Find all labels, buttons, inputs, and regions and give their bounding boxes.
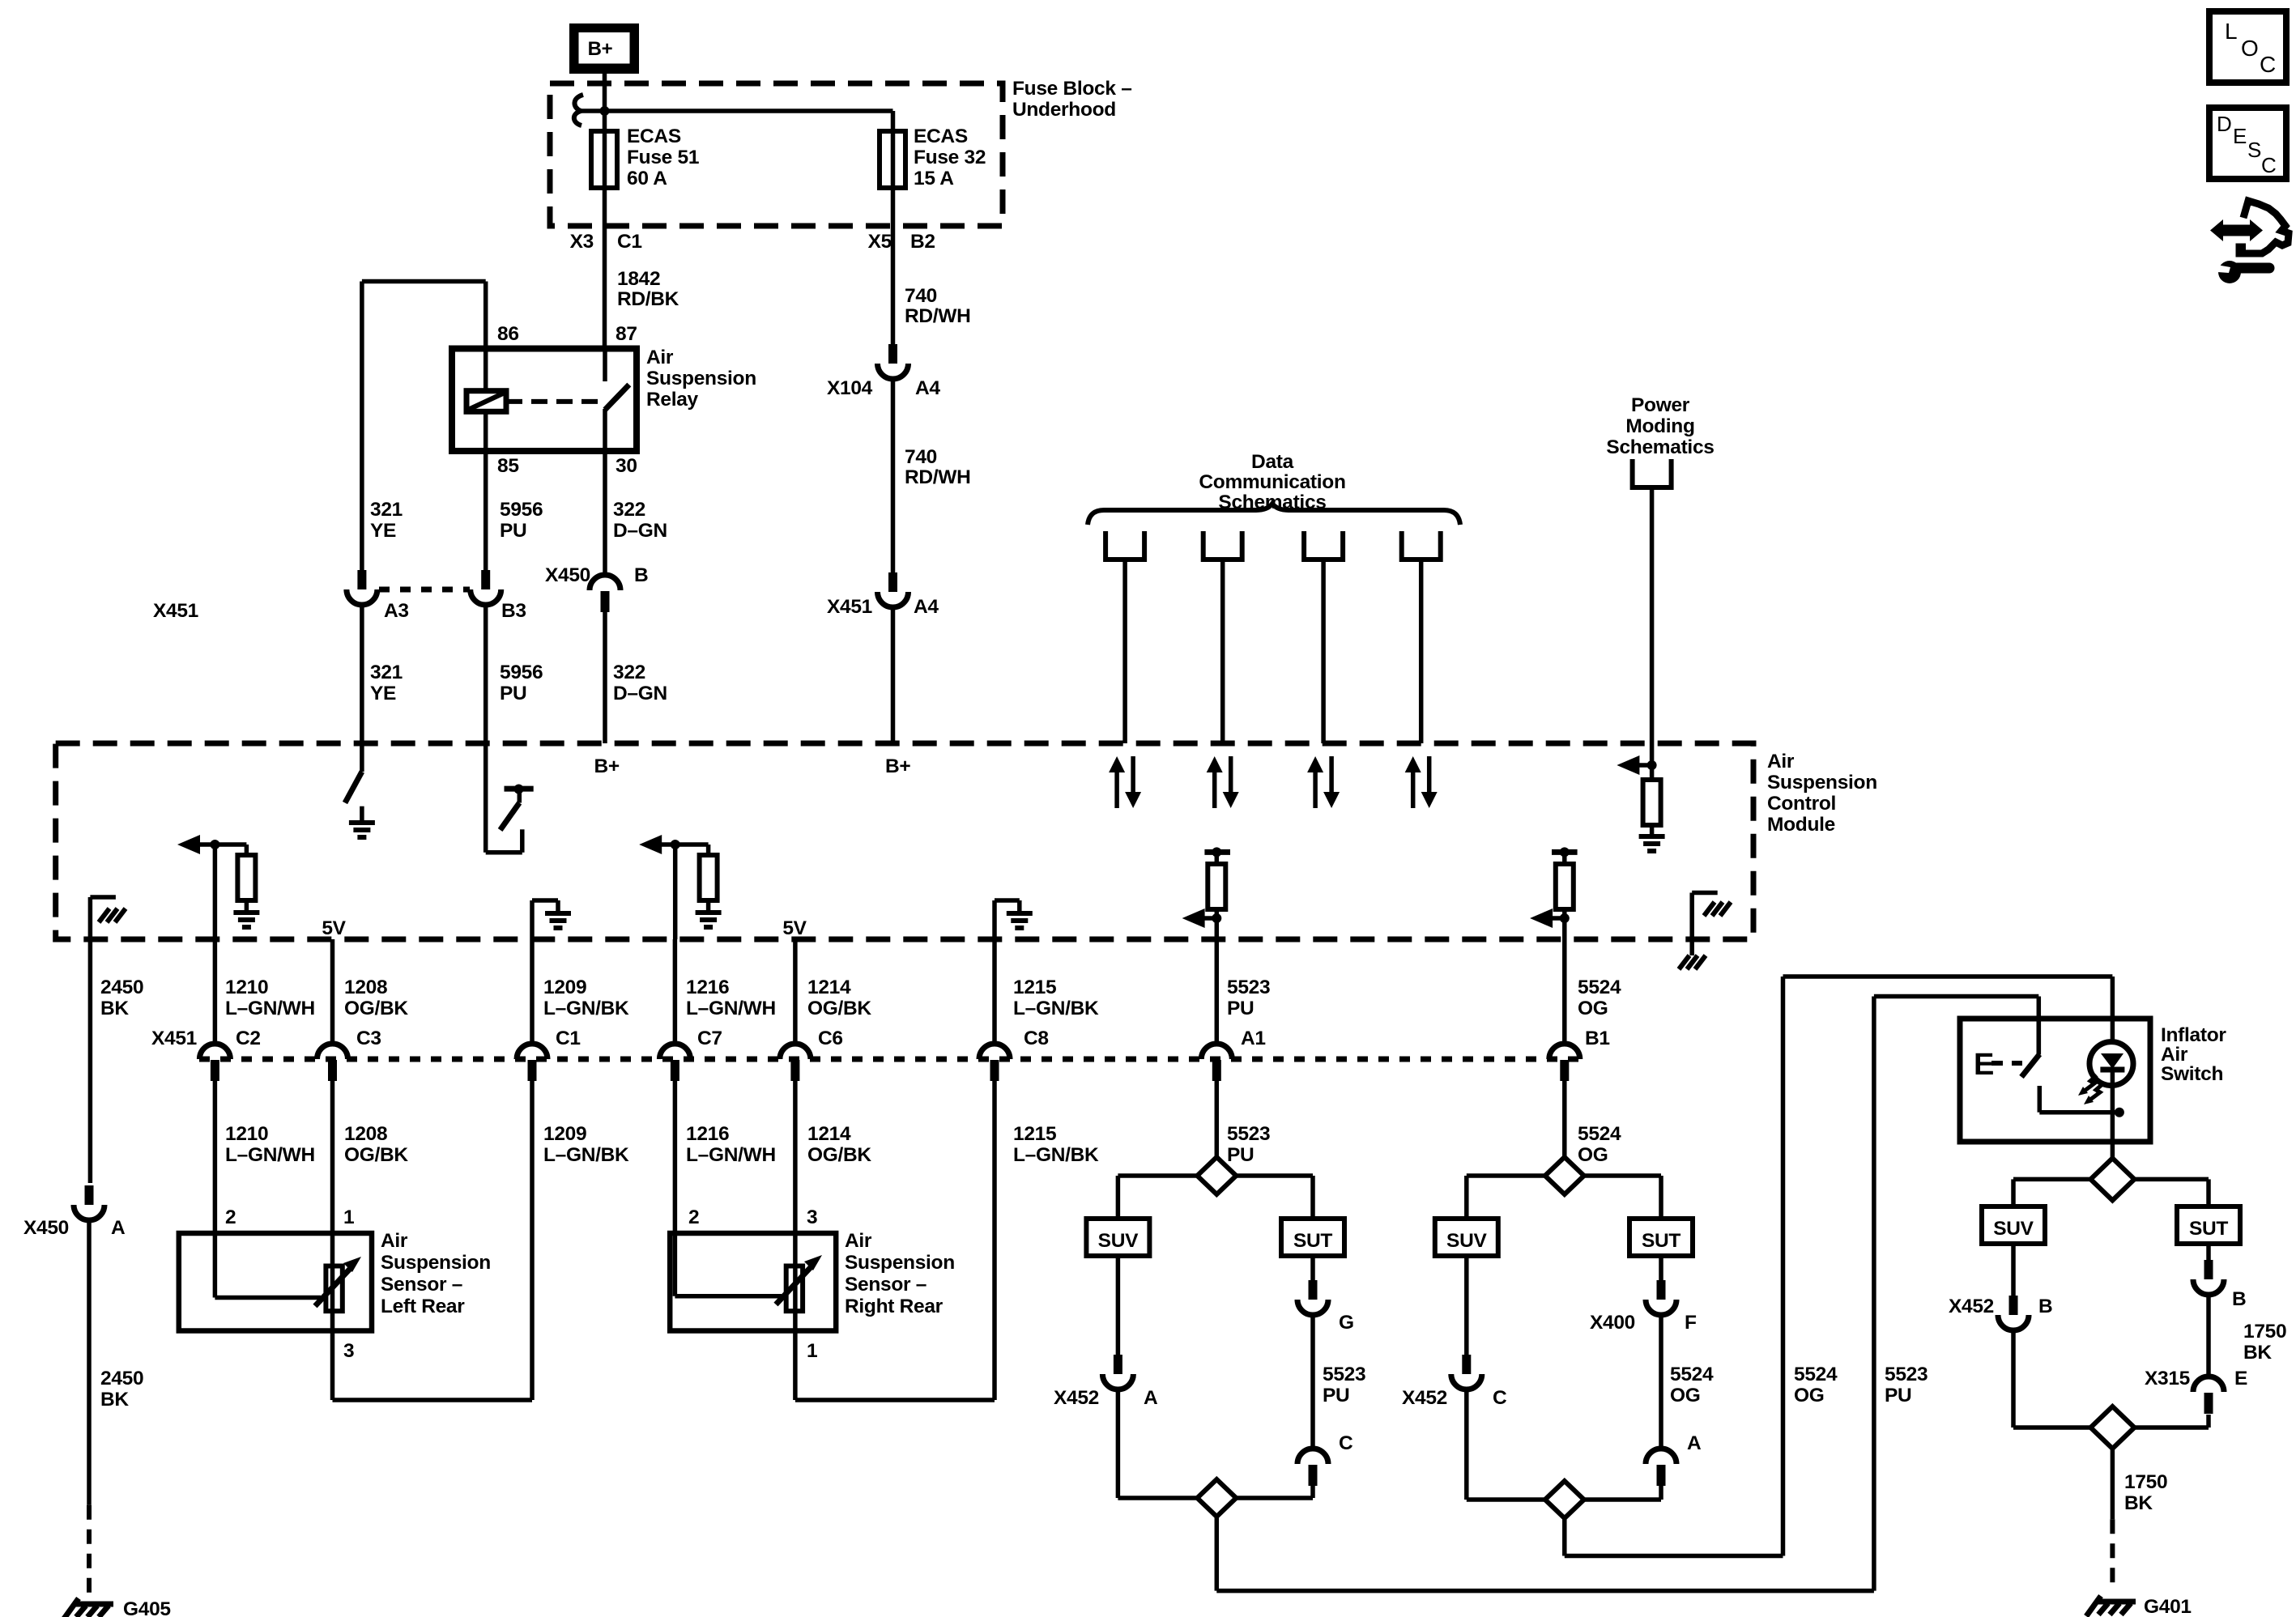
arrow pair serial data 2: [1207, 756, 1223, 772]
svg-text:Communication: Communication: [1199, 471, 1345, 493]
svg-text:X104: X104: [827, 377, 873, 399]
svg-text:G405: G405: [123, 1598, 171, 1617]
connector X452 C: [1451, 1355, 1482, 1389]
svg-text:Switch: Switch: [2161, 1063, 2223, 1085]
icon box DESC: [2209, 108, 2286, 179]
box SUT inflator: [2177, 1206, 2240, 1244]
svg-text:A: A: [111, 1217, 126, 1239]
svg-text:L: L: [2225, 19, 2237, 44]
ground G405: [64, 1598, 113, 1617]
arrow 5524 sense: [1530, 908, 1553, 928]
connector X400 F: [1646, 1280, 1676, 1315]
svg-text:BK: BK: [100, 1389, 129, 1411]
connector X451 C8: [979, 1044, 1010, 1081]
svg-text:BK: BK: [2124, 1492, 2153, 1514]
wire A to bottom: [1659, 1486, 1663, 1500]
svg-text:2: 2: [225, 1206, 236, 1228]
module switch 321 YE to ground: [360, 745, 364, 772]
off-page connector data wire 2: [1203, 531, 1242, 560]
svg-text:5524: 5524: [1670, 1364, 1714, 1385]
svg-text:Underhood: Underhood: [1012, 99, 1116, 121]
svg-text:SUV: SUV: [1446, 1230, 1487, 1252]
svg-text:X452: X452: [1949, 1296, 1994, 1317]
svg-text:C1: C1: [617, 231, 642, 253]
svg-text:321: 321: [370, 662, 403, 683]
box SUV left loop: [1086, 1219, 1149, 1256]
wire 321 YE to module: [360, 605, 364, 745]
switch E dashed link: [1991, 1061, 2022, 1066]
svg-text:B: B: [2038, 1296, 2052, 1317]
connector X451 C6: [780, 1044, 811, 1081]
wire X452 B to bottom: [2011, 1330, 2016, 1428]
wire 1214 through pot: [793, 1266, 798, 1312]
svg-text:A4: A4: [914, 596, 939, 618]
svg-text:B3: B3: [501, 600, 526, 622]
svg-text:G401: G401: [2144, 1596, 2192, 1617]
svg-text:C: C: [2261, 153, 2276, 177]
svg-text:OG/BK: OG/BK: [807, 998, 871, 1019]
svg-text:OG/BK: OG/BK: [344, 998, 408, 1019]
svg-text:SUV: SUV: [1098, 1230, 1139, 1252]
arrow pair serial data 1: [1109, 756, 1125, 772]
wire to SUT left loop: [1310, 1176, 1315, 1219]
svg-text:G: G: [1339, 1312, 1354, 1334]
svg-text:1210: 1210: [225, 977, 268, 998]
wire into connector row x833: [673, 939, 678, 1045]
arrow 1210 sense: [177, 835, 200, 854]
svg-text:RD/WH: RD/WH: [905, 305, 971, 327]
svg-text:BK: BK: [2243, 1342, 2272, 1364]
svg-text:RD/WH: RD/WH: [905, 466, 971, 488]
svg-text:L–GN/WH: L–GN/WH: [686, 998, 776, 1019]
svg-text:C6: C6: [818, 1028, 843, 1049]
relay coil: [466, 391, 506, 412]
fuse F51 ECAS Fuse 51 60 A: [591, 131, 617, 188]
svg-text:1208: 1208: [344, 977, 387, 998]
connector G left loop: [1297, 1280, 1328, 1315]
box SUV inflator: [1982, 1206, 2045, 1244]
svg-text:X3: X3: [570, 231, 594, 253]
svg-text:OG: OG: [1578, 998, 1608, 1019]
connector X451 C2: [199, 1044, 230, 1081]
switch contact inflator: [2038, 1086, 2043, 1113]
connector X451 A3: [347, 570, 377, 605]
svg-text:D: D: [2217, 112, 2231, 136]
svg-text:5524: 5524: [1794, 1364, 1838, 1385]
junction 1210: [210, 840, 219, 849]
wire SUT right to X400 F: [1659, 1256, 1663, 1280]
wire fuse 32 output: [891, 188, 896, 344]
wire into connector row x1228: [992, 939, 997, 1045]
svg-text:5956: 5956: [500, 662, 543, 683]
svg-text:740: 740: [905, 446, 937, 468]
svg-text:PU: PU: [500, 520, 526, 542]
svg-text:85: 85: [497, 455, 519, 477]
svg-text:1750: 1750: [2124, 1471, 2167, 1493]
wire SUV left to X452 A: [1116, 1256, 1121, 1355]
connector X451 A4: [878, 572, 909, 607]
connector X451 C1: [517, 1044, 547, 1081]
connector X315 E: [2193, 1377, 2224, 1414]
svg-text:B+: B+: [588, 38, 613, 60]
svg-text:Sensor –: Sensor –: [845, 1274, 926, 1296]
svg-text:PU: PU: [1885, 1385, 1911, 1406]
svg-text:X450: X450: [23, 1217, 69, 1239]
resistor 1216 pull: [675, 842, 709, 847]
svg-text:A1: A1: [1241, 1028, 1266, 1049]
connector A right loop: [1646, 1449, 1676, 1486]
wire sensor return to C8: [795, 1398, 995, 1402]
junction LED cathode: [2115, 1108, 2124, 1117]
svg-text:1750: 1750: [2243, 1321, 2286, 1343]
svg-text:YE: YE: [370, 520, 396, 542]
ground symbol 1216: [696, 913, 722, 927]
off-page connector data wire 1: [1105, 531, 1144, 560]
wire to SUT right loop: [1659, 1176, 1663, 1219]
wire to SUV inflator: [2011, 1179, 2016, 1206]
svg-text:X400: X400: [1590, 1312, 1635, 1334]
module ground hook right: [1689, 893, 1694, 940]
wire 1210 to sensor: [213, 1081, 218, 1233]
svg-text:SUT: SUT: [1293, 1230, 1332, 1252]
svg-text:C1: C1: [556, 1028, 581, 1049]
connector B inflator: [2193, 1260, 2224, 1295]
svg-text:86: 86: [497, 323, 519, 345]
ground symbol 1215: [1007, 913, 1033, 928]
wire power moding feed: [1650, 487, 1655, 765]
svg-text:1214: 1214: [807, 977, 851, 998]
wire F to A: [1659, 1315, 1663, 1449]
LED indicator: [2089, 1042, 2133, 1086]
connector X451 C3: [317, 1044, 348, 1081]
svg-text:Data: Data: [1251, 451, 1294, 473]
connector X104 A4: [878, 344, 909, 379]
ground symbol internal 321: [349, 823, 375, 837]
svg-text:OG/BK: OG/BK: [807, 1144, 871, 1166]
connector X450 B: [590, 575, 620, 612]
wire to SUV left loop: [1116, 1176, 1121, 1219]
wire fuse 51 output: [603, 188, 607, 349]
connector X451 C7: [659, 1044, 690, 1081]
svg-text:YE: YE: [370, 683, 396, 704]
wire 2450 BK down: [88, 939, 93, 1183]
svg-text:C: C: [1493, 1387, 1507, 1409]
svg-text:O: O: [2241, 36, 2258, 61]
wire 5523 to diamond: [1215, 1081, 1220, 1157]
wire 740 RD/WH to module: [891, 607, 896, 743]
svg-text:5523: 5523: [1885, 1364, 1928, 1385]
svg-text:3: 3: [807, 1206, 817, 1228]
svg-text:OG: OG: [1670, 1385, 1701, 1406]
svg-text:L–GN/WH: L–GN/WH: [686, 1144, 776, 1166]
svg-text:1208: 1208: [344, 1123, 387, 1145]
relay switch contact 30-87: [603, 349, 607, 382]
junction 5524: [1560, 913, 1570, 923]
svg-text:Right Rear: Right Rear: [845, 1296, 944, 1317]
splice diamond inflator: [2013, 1177, 2209, 1182]
svg-text:E: E: [2234, 1368, 2247, 1389]
svg-text:5V: 5V: [782, 917, 807, 939]
resistor power moding: [1650, 765, 1655, 780]
ground symbol 1210: [233, 913, 259, 927]
wire 5524 bottom route: [1562, 1518, 1567, 1556]
svg-text:5524: 5524: [1578, 977, 1621, 998]
wire SUV right to X452 C: [1464, 1256, 1469, 1355]
off-page connector data wire 4: [1402, 531, 1441, 560]
connector X452 A: [1102, 1355, 1133, 1389]
svg-text:322: 322: [613, 499, 645, 521]
sensor box Air Suspension Sensor - Left Rear: [179, 1233, 372, 1331]
svg-text:Fuse 51: Fuse 51: [627, 147, 699, 168]
svg-text:Suspension: Suspension: [845, 1252, 955, 1274]
svg-text:SUV: SUV: [1993, 1218, 2034, 1240]
svg-text:1215: 1215: [1013, 1123, 1056, 1145]
svg-text:L–GN/BK: L–GN/BK: [1013, 998, 1099, 1019]
svg-text:Fuse 32: Fuse 32: [914, 147, 986, 168]
svg-text:Air: Air: [646, 347, 674, 368]
wire C to bottom: [1310, 1486, 1315, 1498]
svg-text:Left Rear: Left Rear: [381, 1296, 465, 1317]
wire SUT inflator to B: [2206, 1244, 2211, 1260]
svg-text:30: 30: [616, 455, 637, 477]
wire X452 C to bottom: [1464, 1389, 1469, 1500]
connector X451 B1: [1549, 1044, 1580, 1081]
ground symbol 1209: [545, 913, 571, 928]
svg-text:1: 1: [807, 1340, 817, 1362]
power moding junction: [1647, 760, 1657, 770]
connector X451 B3: [471, 570, 501, 605]
svg-text:X450: X450: [545, 564, 590, 586]
wire 1210 inside module: [213, 845, 218, 939]
fuse F32 ECAS Fuse 32 15 A: [880, 131, 905, 188]
wire into connector row x1931: [1562, 939, 1567, 1045]
wire 5524 top route: [1783, 974, 2113, 979]
battery terminal B+: [569, 23, 639, 74]
svg-text:Schematics: Schematics: [1606, 436, 1714, 458]
svg-text:Air: Air: [845, 1230, 872, 1252]
svg-text:A3: A3: [384, 600, 409, 622]
arrow 5523 sense: [1182, 908, 1205, 928]
svg-text:5V: 5V: [322, 917, 346, 939]
svg-text:5524: 5524: [1578, 1123, 1621, 1145]
svg-text:1210: 1210: [225, 1123, 268, 1145]
wire data link 3: [1321, 560, 1326, 743]
svg-text:Control: Control: [1767, 793, 1836, 815]
connector row dashed line: [199, 1057, 1579, 1062]
splice diamond 5524 bottom: [1467, 1497, 1661, 1502]
svg-text:Air: Air: [2161, 1044, 2188, 1066]
driver 5523 supply bar: [1204, 849, 1230, 855]
svg-text:X451: X451: [151, 1028, 197, 1049]
svg-text:Module: Module: [1767, 814, 1835, 836]
svg-text:5523: 5523: [1227, 1123, 1270, 1145]
svg-text:2: 2: [688, 1206, 699, 1228]
svg-text:1209: 1209: [543, 1123, 586, 1145]
wire 1209 ground hook: [530, 900, 535, 939]
svg-text:C2: C2: [236, 1028, 261, 1049]
svg-text:C3: C3: [356, 1028, 381, 1049]
svg-text:B: B: [2232, 1288, 2246, 1310]
svg-text:X315: X315: [2145, 1368, 2190, 1389]
ground symbol power moding: [1639, 836, 1665, 851]
svg-text:B1: B1: [1585, 1028, 1610, 1049]
sensor box Air Suspension Sensor - Right Rear: [670, 1233, 836, 1331]
splice diamond 5524 top: [1467, 1173, 1661, 1178]
svg-text:D–GN: D–GN: [613, 520, 667, 542]
wire G to C: [1310, 1315, 1315, 1449]
wire data link 2: [1220, 560, 1225, 743]
wire 5524 to diamond: [1562, 1081, 1567, 1157]
svg-text:BK: BK: [100, 998, 129, 1019]
svg-text:5523: 5523: [1323, 1364, 1365, 1385]
connector X452 B: [1998, 1296, 2029, 1330]
svg-text:322: 322: [613, 662, 645, 683]
brace data communication: [1088, 504, 1460, 525]
icon box LOC: [2209, 11, 2286, 83]
svg-text:L–GN/WH: L–GN/WH: [225, 998, 315, 1019]
svg-text:ECAS: ECAS: [914, 126, 968, 147]
svg-text:X452: X452: [1054, 1387, 1099, 1409]
wire into connector row x1502: [1215, 939, 1220, 1045]
svg-text:C8: C8: [1024, 1028, 1049, 1049]
switch box Inflator Air Switch: [1960, 1019, 2150, 1142]
wire X452 A to bottom: [1116, 1389, 1121, 1498]
box SUV right loop: [1435, 1219, 1498, 1256]
wire 1210 inside sensor: [213, 1233, 218, 1298]
wire fuse block bus: [577, 109, 893, 113]
svg-text:C: C: [2260, 52, 2276, 77]
svg-text:Suspension: Suspension: [646, 368, 756, 389]
svg-text:5956: 5956: [500, 499, 543, 521]
wire 2450 BK dashed to ground: [87, 1505, 92, 1602]
svg-text:OG/BK: OG/BK: [344, 1144, 408, 1166]
svg-text:740: 740: [905, 285, 937, 307]
svg-text:2450: 2450: [100, 977, 143, 998]
connector X451 dashed bridge: [379, 587, 470, 593]
junction 5523: [1212, 913, 1221, 923]
svg-text:C7: C7: [697, 1028, 722, 1049]
wire 740 RD/WH mid: [891, 379, 896, 572]
wire relay pin 86 feed: [362, 279, 486, 284]
svg-text:Suspension: Suspension: [381, 1252, 491, 1274]
wire X315 E to bottom: [2206, 1415, 2211, 1428]
svg-text:1214: 1214: [807, 1123, 851, 1145]
relay link dashed: [506, 399, 603, 404]
junction node on B+ feed: [600, 106, 610, 116]
potentiometer left sensor: [326, 1266, 342, 1312]
potentiometer right sensor: [786, 1266, 803, 1312]
svg-text:L–GN/BK: L–GN/BK: [543, 998, 629, 1019]
switch arm inflator: [2037, 1019, 2042, 1055]
svg-text:Air: Air: [1767, 751, 1795, 772]
svg-text:PU: PU: [1227, 1144, 1254, 1166]
wire SUV inflator to X452 B: [2011, 1244, 2016, 1296]
svg-text:E: E: [2233, 124, 2247, 148]
arrow power moding: [1617, 755, 1639, 775]
wire 1750 BK to ground: [2111, 1449, 2115, 1519]
svg-text:Air: Air: [381, 1230, 408, 1252]
svg-text:A: A: [1144, 1387, 1158, 1409]
svg-text:1: 1: [343, 1206, 354, 1228]
svg-text:Moding: Moding: [1625, 415, 1694, 437]
module switch 5956 PU: [483, 745, 488, 853]
svg-text:15 A: 15 A: [914, 168, 954, 189]
connector X451 A1: [1201, 1044, 1232, 1081]
svg-text:B+: B+: [594, 755, 620, 777]
svg-text:1216: 1216: [686, 1123, 729, 1145]
wire B+ to fuse block: [603, 74, 607, 131]
svg-text:1842: 1842: [617, 268, 660, 290]
wire 1216 to sensor: [673, 1081, 678, 1233]
resistor 1210 pull: [215, 842, 246, 847]
wire into connector row x265: [213, 939, 218, 1045]
wire LED to diamond: [2111, 1142, 2115, 1158]
off-page connector power moding: [1633, 459, 1672, 487]
svg-text:3: 3: [343, 1340, 354, 1362]
arrow pair serial data 4: [1405, 756, 1421, 772]
resistor 5524 driver: [1556, 864, 1574, 909]
svg-text:1215: 1215: [1013, 977, 1056, 998]
fuse block dashed box: [550, 83, 1003, 226]
svg-text:5523: 5523: [1227, 977, 1270, 998]
driver 5524 supply bar: [1552, 849, 1578, 855]
icon arrow wrench: [2210, 201, 2289, 283]
splice diamond 5523 bottom: [1118, 1496, 1313, 1500]
svg-text:87: 87: [616, 323, 637, 345]
svg-text:321: 321: [370, 499, 403, 521]
svg-text:B+: B+: [885, 755, 910, 777]
LED light arrows: [2078, 1075, 2102, 1104]
module box Air Suspension Control Module: [56, 743, 1753, 939]
splice diamond 5523 top: [1118, 1173, 1313, 1178]
chassis ground external right: [1679, 955, 1706, 969]
svg-text:ECAS: ECAS: [627, 126, 681, 147]
wire SUT left to G: [1310, 1256, 1315, 1280]
splice diamond inflator bottom: [2013, 1425, 2209, 1430]
svg-text:C: C: [1339, 1432, 1353, 1454]
svg-text:PU: PU: [1323, 1385, 1349, 1406]
svg-text:X451: X451: [153, 600, 198, 622]
svg-text:A: A: [1687, 1432, 1702, 1454]
wire B to X315 E: [2206, 1295, 2211, 1377]
wire data link 4: [1419, 560, 1424, 743]
module ground stub below: [1689, 939, 1694, 955]
svg-text:OG: OG: [1578, 1144, 1608, 1166]
wire 1216 inside module: [673, 845, 678, 939]
svg-text:PU: PU: [1227, 998, 1254, 1019]
svg-text:60 A: 60 A: [627, 168, 667, 189]
box SUT left loop: [1281, 1219, 1344, 1256]
svg-text:L–GN/BK: L–GN/BK: [1013, 1144, 1099, 1166]
svg-text:X5: X5: [868, 231, 892, 253]
svg-text:Inflator: Inflator: [2161, 1024, 2226, 1046]
wire 1216 inside sensor: [673, 1233, 678, 1296]
box SUT right loop: [1629, 1219, 1693, 1256]
chassis ground internal right: [1704, 902, 1731, 916]
svg-text:E: E: [1974, 1048, 1994, 1082]
svg-text:RD/BK: RD/BK: [617, 288, 679, 310]
svg-text:B: B: [634, 564, 648, 586]
wire relay pin 85 to B3: [483, 451, 488, 570]
svg-text:Relay: Relay: [646, 389, 699, 411]
wire into connector row x981: [793, 939, 798, 1045]
wire 5956 PU to module: [483, 605, 488, 745]
connector X450 A: [74, 1185, 104, 1220]
wire sensor return to C1: [333, 1398, 533, 1402]
junction 1216: [671, 840, 680, 849]
arrow pair serial data 3: [1307, 756, 1323, 772]
off-page connector data wire 3: [1304, 531, 1343, 560]
